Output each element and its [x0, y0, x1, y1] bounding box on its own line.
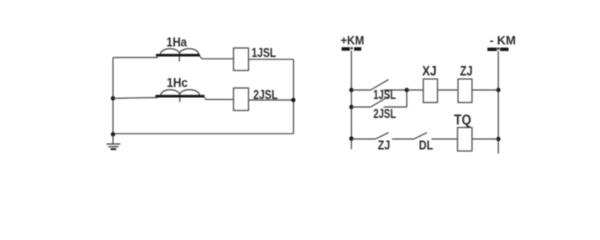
label XJ — [422, 63, 437, 79]
wire ZJ to right rail — [472, 89, 498, 91]
relay coil 2JSL — [234, 88, 249, 111]
wire CT1 to coil — [200, 57, 234, 59]
node left rail branch 2JSL — [349, 105, 353, 109]
wire right rail — [497, 51, 499, 154]
label 1JSL (left circuit) — [252, 46, 277, 60]
wire top branch left segment — [113, 57, 158, 59]
wire CT2 to coil — [205, 98, 234, 100]
label +KM — [341, 36, 365, 48]
terminal bar +KM — [342, 47, 362, 51]
svg-text:- KM: - KM — [490, 35, 516, 48]
wire branch 2 left segment — [113, 97, 158, 100]
contact DL — [414, 133, 458, 139]
label 1Ha — [166, 35, 187, 50]
wire coil 1JSL to right bus — [249, 58, 294, 60]
label ZJ (contact) — [378, 139, 390, 153]
contact 2JSL — [351, 97, 406, 108]
wire bottom return — [113, 133, 294, 135]
wire join to XJ — [407, 89, 424, 91]
ground — [107, 134, 121, 149]
wire TQ to right rail — [472, 138, 498, 140]
svg-text:TQ: TQ — [454, 111, 471, 127]
svg-text:1Ha: 1Ha — [166, 35, 187, 50]
svg-text:ZJ: ZJ — [460, 63, 473, 79]
node right bus branch 2 junction — [291, 98, 295, 102]
node left rail row2 — [349, 136, 353, 140]
node left rail row1 — [349, 88, 353, 92]
node left bus branch 2 — [111, 96, 115, 100]
wire right bus vertical — [293, 59, 295, 133]
label 1Hc — [167, 75, 188, 90]
relay coil 1JSL — [234, 48, 249, 71]
label -KM — [490, 35, 516, 48]
node contacts join — [405, 88, 409, 92]
svg-text:+KM: +KM — [341, 36, 365, 48]
label DL — [419, 139, 433, 153]
svg-text:ZJ: ZJ — [378, 139, 390, 153]
node right rail row1 — [496, 88, 500, 92]
wire coil 2JSL to right bus — [249, 99, 294, 101]
contact 1JSL — [351, 80, 406, 91]
svg-text:1JSL: 1JSL — [252, 46, 277, 60]
contact ZJ — [351, 133, 414, 139]
label ZJ (coil) — [460, 63, 473, 79]
current transformer 1Hc — [156, 90, 205, 102]
terminal bar -KM — [487, 48, 508, 51]
wire XJ to ZJ — [438, 89, 459, 91]
svg-text:1Hc: 1Hc — [167, 75, 188, 90]
node ground junction — [111, 132, 115, 136]
label 2JSL (left circuit) — [253, 88, 278, 102]
svg-text:1JSL: 1JSL — [373, 89, 396, 103]
wire left bus vertical — [112, 58, 114, 135]
wire left rail — [350, 51, 352, 150]
relay coil XJ — [423, 79, 437, 103]
label 1JSL (contact) — [373, 89, 396, 103]
label TQ — [454, 111, 471, 127]
node right rail row2 — [496, 137, 500, 141]
svg-text:2JSL: 2JSL — [373, 108, 396, 122]
relay coil ZJ — [458, 79, 472, 103]
svg-text:DL: DL — [419, 139, 433, 153]
svg-text:XJ: XJ — [422, 63, 437, 79]
relay coil TQ — [458, 128, 473, 152]
wire 2JSL riser — [406, 90, 408, 107]
label 2JSL (contact) — [373, 108, 396, 122]
current transformer 1Ha — [156, 49, 200, 62]
